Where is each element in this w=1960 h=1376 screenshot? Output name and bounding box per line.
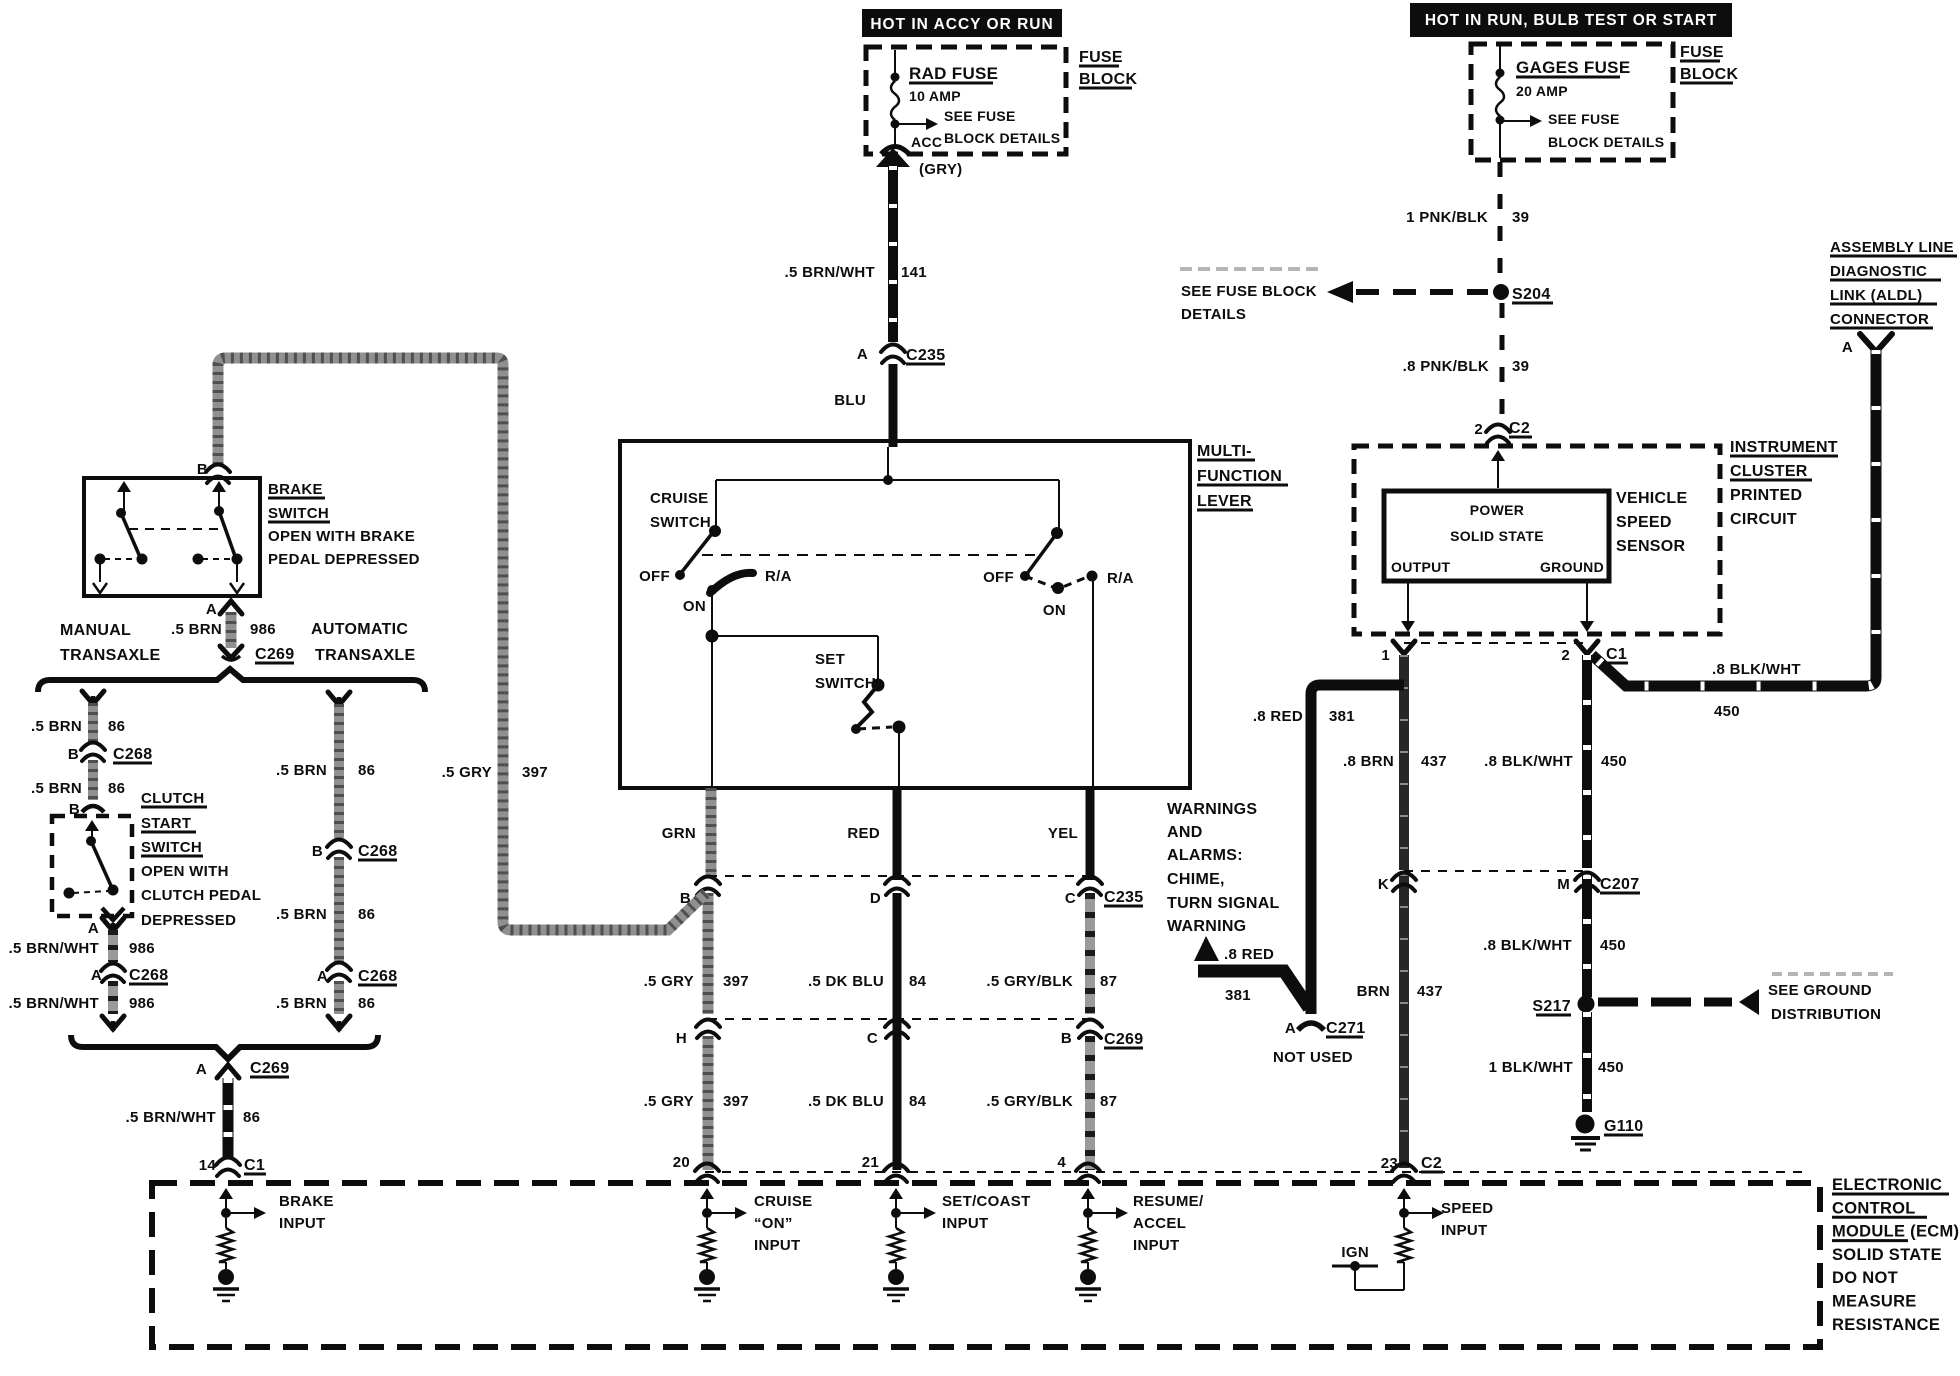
- svg-text:BRAKE: BRAKE: [268, 481, 323, 498]
- svg-text:.5 BRN/WHT: .5 BRN/WHT: [126, 1109, 217, 1126]
- svg-text:381: 381: [1225, 987, 1251, 1004]
- svg-text:CRUISE: CRUISE: [650, 490, 708, 507]
- svg-text:SEE FUSE: SEE FUSE: [1548, 111, 1620, 127]
- svg-text:C235: C235: [906, 347, 945, 364]
- svg-text:TRANSAXLE: TRANSAXLE: [315, 647, 416, 664]
- svg-text:B: B: [1061, 1030, 1072, 1047]
- svg-text:C269: C269: [255, 646, 294, 663]
- svg-text:GROUND: GROUND: [1540, 559, 1604, 575]
- svg-text:C235: C235: [1104, 889, 1143, 906]
- svg-text:.5 GRY/BLK: .5 GRY/BLK: [986, 973, 1073, 990]
- svg-text:ON: ON: [683, 598, 706, 615]
- svg-text:C268: C268: [358, 968, 397, 985]
- svg-text:BLOCK: BLOCK: [1680, 66, 1739, 83]
- svg-text:4: 4: [1057, 1154, 1066, 1171]
- svg-text:FUSE: FUSE: [1079, 49, 1123, 66]
- svg-text:BLOCK DETAILS: BLOCK DETAILS: [944, 130, 1060, 146]
- svg-text:PRINTED: PRINTED: [1730, 487, 1802, 504]
- svg-text:2: 2: [1474, 421, 1483, 438]
- svg-text:1 PNK/BLK: 1 PNK/BLK: [1406, 209, 1488, 226]
- svg-text:OPEN WITH BRAKE: OPEN WITH BRAKE: [268, 528, 415, 545]
- svg-text:.5 BRN: .5 BRN: [31, 780, 82, 797]
- svg-text:.5 BRN: .5 BRN: [276, 906, 327, 923]
- svg-text:MANUAL: MANUAL: [60, 622, 131, 639]
- svg-text:AND: AND: [1167, 824, 1203, 841]
- svg-text:10 AMP: 10 AMP: [909, 88, 961, 104]
- svg-text:IGN: IGN: [1341, 1244, 1369, 1261]
- svg-text:SWITCH: SWITCH: [268, 505, 329, 522]
- svg-text:C268: C268: [129, 967, 168, 984]
- svg-text:BLOCK DETAILS: BLOCK DETAILS: [1548, 134, 1664, 150]
- svg-text:NOT USED: NOT USED: [1273, 1049, 1353, 1066]
- svg-text:.5 BRN: .5 BRN: [276, 995, 327, 1012]
- svg-text:986: 986: [250, 621, 276, 638]
- svg-text:VEHICLE: VEHICLE: [1616, 490, 1687, 507]
- svg-text:A: A: [88, 920, 99, 937]
- svg-text:1 BLK/WHT: 1 BLK/WHT: [1489, 1059, 1573, 1076]
- svg-text:BRN: BRN: [1357, 983, 1390, 1000]
- svg-text:S204: S204: [1512, 286, 1551, 303]
- svg-text:RED: RED: [847, 825, 880, 842]
- svg-text:.5 BRN: .5 BRN: [31, 718, 82, 735]
- svg-text:450: 450: [1600, 937, 1626, 954]
- svg-text:84: 84: [909, 1093, 927, 1110]
- svg-text:RAD FUSE: RAD FUSE: [909, 64, 998, 83]
- svg-text:986: 986: [129, 940, 155, 957]
- svg-text:B: B: [312, 843, 323, 860]
- svg-text:SOLID STATE: SOLID STATE: [1832, 1246, 1942, 1264]
- svg-text:HOT IN ACCY OR RUN: HOT IN ACCY OR RUN: [870, 16, 1053, 33]
- svg-text:GRN: GRN: [662, 825, 696, 842]
- svg-text:.8 BLK/WHT: .8 BLK/WHT: [1483, 937, 1572, 954]
- svg-text:A: A: [317, 968, 328, 985]
- svg-text:SET/COAST: SET/COAST: [942, 1193, 1031, 1210]
- svg-text:OFF: OFF: [983, 569, 1014, 586]
- svg-text:CONTROL: CONTROL: [1832, 1199, 1916, 1217]
- svg-text:21: 21: [862, 1154, 879, 1171]
- svg-text:TRANSAXLE: TRANSAXLE: [60, 647, 161, 664]
- svg-text:BLOCK: BLOCK: [1079, 71, 1138, 88]
- svg-text:23: 23: [1381, 1155, 1398, 1172]
- svg-text:87: 87: [1100, 1093, 1117, 1110]
- svg-text:AUTOMATIC: AUTOMATIC: [311, 621, 408, 638]
- svg-text:CLUSTER: CLUSTER: [1730, 463, 1808, 480]
- svg-text:87: 87: [1100, 973, 1117, 990]
- svg-text:INPUT: INPUT: [279, 1215, 326, 1232]
- svg-text:.8 BLK/WHT: .8 BLK/WHT: [1712, 661, 1801, 678]
- svg-text:CLUTCH PEDAL: CLUTCH PEDAL: [141, 887, 261, 904]
- svg-text:ALARMS:: ALARMS:: [1167, 847, 1243, 864]
- svg-text:ON: ON: [1043, 602, 1066, 619]
- svg-text:LINK (ALDL): LINK (ALDL): [1830, 287, 1922, 304]
- svg-text:HOT IN RUN, BULB TEST OR START: HOT IN RUN, BULB TEST OR START: [1425, 12, 1717, 29]
- svg-text:.5 DK BLU: .5 DK BLU: [808, 1093, 884, 1110]
- svg-text:14: 14: [199, 1157, 217, 1174]
- svg-text:.5 DK BLU: .5 DK BLU: [808, 973, 884, 990]
- svg-text:WARNINGS: WARNINGS: [1167, 801, 1257, 818]
- svg-text:39: 39: [1512, 358, 1529, 375]
- svg-text:C207: C207: [1600, 876, 1639, 893]
- svg-text:MODULE (ECM): MODULE (ECM): [1832, 1223, 1959, 1241]
- svg-text:DETAILS: DETAILS: [1181, 306, 1246, 323]
- svg-text:.8 BLK/WHT: .8 BLK/WHT: [1484, 753, 1573, 770]
- svg-text:.5 GRY: .5 GRY: [644, 973, 694, 990]
- svg-text:G110: G110: [1604, 1118, 1643, 1135]
- svg-text:450: 450: [1598, 1059, 1624, 1076]
- svg-text:1: 1: [1381, 647, 1390, 664]
- svg-text:CONNECTOR: CONNECTOR: [1830, 311, 1929, 328]
- svg-text:SEE FUSE BLOCK: SEE FUSE BLOCK: [1181, 283, 1317, 300]
- svg-text:GAGES FUSE: GAGES FUSE: [1516, 58, 1630, 77]
- svg-text:CHIME,: CHIME,: [1167, 871, 1225, 888]
- svg-text:.5 GRY: .5 GRY: [442, 764, 492, 781]
- svg-text:86: 86: [108, 718, 125, 735]
- svg-text:437: 437: [1417, 983, 1443, 1000]
- svg-text:C268: C268: [358, 843, 397, 860]
- svg-text:C269: C269: [1104, 1031, 1143, 1048]
- svg-text:“ON”: “ON”: [754, 1215, 793, 1232]
- svg-text:SOLID STATE: SOLID STATE: [1450, 528, 1544, 544]
- svg-text:MEASURE: MEASURE: [1832, 1293, 1917, 1311]
- svg-text:S217: S217: [1532, 998, 1571, 1015]
- svg-text:.5 BRN/WHT: .5 BRN/WHT: [785, 264, 876, 281]
- svg-text:OFF: OFF: [639, 568, 670, 585]
- svg-text:397: 397: [723, 973, 749, 990]
- svg-text:OPEN WITH: OPEN WITH: [141, 863, 229, 880]
- svg-text:INPUT: INPUT: [942, 1215, 989, 1232]
- svg-text:SWITCH: SWITCH: [815, 675, 876, 692]
- svg-text:BRAKE: BRAKE: [279, 1193, 334, 1210]
- svg-text:.5 BRN: .5 BRN: [171, 621, 222, 638]
- svg-text:86: 86: [358, 762, 375, 779]
- svg-text:(GRY): (GRY): [919, 161, 962, 178]
- svg-text:C268: C268: [113, 746, 152, 763]
- svg-text:86: 86: [358, 906, 375, 923]
- svg-text:INPUT: INPUT: [1133, 1237, 1180, 1254]
- svg-text:SEE GROUND: SEE GROUND: [1768, 982, 1872, 999]
- svg-text:C271: C271: [1326, 1020, 1365, 1037]
- svg-text:SWITCH: SWITCH: [141, 839, 202, 856]
- svg-text:H: H: [676, 1030, 687, 1047]
- svg-text:A: A: [206, 601, 217, 618]
- svg-text:450: 450: [1714, 703, 1740, 720]
- svg-text:.5 GRY: .5 GRY: [644, 1093, 694, 1110]
- svg-text:WARNING: WARNING: [1167, 918, 1246, 935]
- svg-text:2: 2: [1561, 647, 1570, 664]
- svg-text:DEPRESSED: DEPRESSED: [141, 912, 236, 929]
- svg-text:RESISTANCE: RESISTANCE: [1832, 1316, 1940, 1334]
- svg-text:C: C: [1065, 890, 1076, 907]
- svg-text:C2: C2: [1421, 1155, 1442, 1172]
- svg-text:OUTPUT: OUTPUT: [1391, 559, 1451, 575]
- svg-text:FUNCTION: FUNCTION: [1197, 468, 1282, 485]
- svg-text:.5 BRN/WHT: .5 BRN/WHT: [9, 940, 100, 957]
- svg-text:86: 86: [243, 1109, 260, 1126]
- svg-text:84: 84: [909, 973, 927, 990]
- svg-text:C1: C1: [244, 1157, 265, 1174]
- svg-text:DIAGNOSTIC: DIAGNOSTIC: [1830, 263, 1927, 280]
- svg-text:.5 BRN: .5 BRN: [276, 762, 327, 779]
- svg-text:YEL: YEL: [1048, 825, 1078, 842]
- svg-text:437: 437: [1421, 753, 1447, 770]
- svg-text:A: A: [196, 1061, 207, 1078]
- svg-text:.8 BRN: .8 BRN: [1343, 753, 1394, 770]
- svg-text:CRUISE: CRUISE: [754, 1193, 812, 1210]
- svg-text:A: A: [1285, 1020, 1296, 1037]
- svg-text:397: 397: [723, 1093, 749, 1110]
- svg-text:POWER: POWER: [1470, 502, 1524, 518]
- svg-text:SPEED: SPEED: [1616, 514, 1672, 531]
- svg-text:LEVER: LEVER: [1197, 493, 1252, 510]
- svg-text:FUSE: FUSE: [1680, 44, 1724, 61]
- svg-text:R/A: R/A: [1107, 570, 1134, 587]
- svg-text:PEDAL DEPRESSED: PEDAL DEPRESSED: [268, 551, 420, 568]
- svg-text:INPUT: INPUT: [754, 1237, 801, 1254]
- svg-text:INSTRUMENT: INSTRUMENT: [1730, 439, 1838, 456]
- svg-text:B: B: [197, 461, 208, 478]
- svg-text:START: START: [141, 815, 191, 832]
- svg-text:20: 20: [673, 1154, 690, 1171]
- svg-text:K: K: [1378, 876, 1389, 893]
- svg-text:CLUTCH: CLUTCH: [141, 790, 204, 807]
- svg-text:C1: C1: [1606, 646, 1627, 663]
- svg-text:C269: C269: [250, 1060, 289, 1077]
- svg-text:450: 450: [1601, 753, 1627, 770]
- svg-text:SET: SET: [815, 651, 845, 668]
- svg-text:.8 RED: .8 RED: [1253, 708, 1303, 725]
- svg-text:TURN SIGNAL: TURN SIGNAL: [1167, 895, 1280, 912]
- svg-text:A: A: [857, 346, 868, 363]
- svg-text:.8 PNK/BLK: .8 PNK/BLK: [1403, 358, 1489, 375]
- svg-text:B: B: [68, 746, 79, 763]
- svg-text:39: 39: [1512, 209, 1529, 226]
- svg-text:381: 381: [1329, 708, 1355, 725]
- svg-text:ELECTRONIC: ELECTRONIC: [1832, 1176, 1942, 1194]
- svg-text:397: 397: [522, 764, 548, 781]
- svg-text:141: 141: [901, 264, 927, 281]
- svg-text:D: D: [870, 890, 881, 907]
- svg-text:A: A: [1842, 339, 1853, 356]
- svg-text:CIRCUIT: CIRCUIT: [1730, 511, 1797, 528]
- svg-text:986: 986: [129, 995, 155, 1012]
- svg-text:20 AMP: 20 AMP: [1516, 83, 1568, 99]
- svg-text:R/A: R/A: [765, 568, 792, 585]
- svg-text:C: C: [867, 1030, 878, 1047]
- svg-text:SWITCH: SWITCH: [650, 514, 711, 531]
- svg-text:86: 86: [358, 995, 375, 1012]
- svg-text:SEE FUSE: SEE FUSE: [944, 108, 1016, 124]
- svg-text:DO NOT: DO NOT: [1832, 1269, 1898, 1287]
- svg-text:RESUME/: RESUME/: [1133, 1193, 1204, 1210]
- svg-text:MULTI-: MULTI-: [1197, 443, 1252, 460]
- svg-text:ASSEMBLY LINE: ASSEMBLY LINE: [1830, 239, 1954, 256]
- svg-text:ACCEL: ACCEL: [1133, 1215, 1186, 1232]
- svg-text:.5 GRY/BLK: .5 GRY/BLK: [986, 1093, 1073, 1110]
- svg-text:C2: C2: [1509, 420, 1530, 437]
- svg-text:M: M: [1557, 876, 1570, 893]
- svg-text:DISTRIBUTION: DISTRIBUTION: [1771, 1006, 1881, 1023]
- svg-text:SENSOR: SENSOR: [1616, 538, 1686, 555]
- svg-text:86: 86: [108, 780, 125, 797]
- svg-text:SPEED: SPEED: [1441, 1200, 1493, 1217]
- svg-text:.5 BRN/WHT: .5 BRN/WHT: [9, 995, 100, 1012]
- svg-text:A: A: [91, 967, 102, 984]
- svg-text:INPUT: INPUT: [1441, 1222, 1488, 1239]
- svg-text:.8 RED: .8 RED: [1224, 946, 1274, 963]
- svg-text:ACC: ACC: [911, 134, 942, 150]
- svg-text:BLU: BLU: [834, 392, 866, 409]
